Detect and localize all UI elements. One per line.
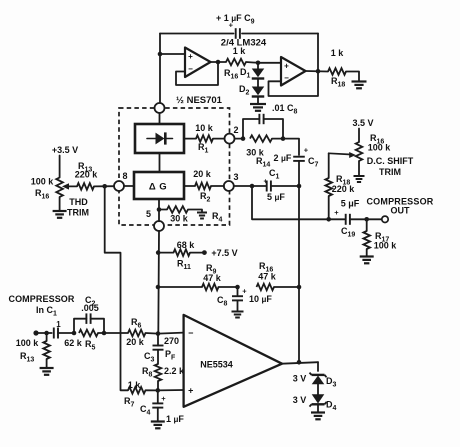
svg-text:3 V: 3 V [293,374,307,384]
resistor R13b 100k [16,333,50,368]
label D.C. SHIFT TRIM [367,156,414,177]
resistor R7 1k [124,380,158,409]
node THD junction [102,184,107,189]
svg-text:−: − [188,64,193,73]
capacitor C3 270pF [144,334,179,364]
svg-text:47 k: 47 k [258,272,277,282]
svg-text:−: − [188,328,193,338]
node noninverting input junction [156,388,184,393]
node inverting input junction [156,331,184,336]
svg-text:30 k: 30 k [170,214,189,224]
svg-text:1 μF: 1 μF [166,414,184,424]
ground after R18 [346,72,367,89]
resistor R8 2.2k [142,364,185,390]
dashed IC cell boundary [119,108,230,225]
svg-text:220 k: 220 k [332,184,356,194]
ground below D2 [250,97,266,111]
svg-text:D.C. SHIFT: D.C. SHIFT [367,156,414,166]
wire node-top to rectifier box [159,113,161,124]
wiper arrow R16d [62,183,77,189]
svg-text:62 k: 62 k [64,338,83,348]
svg-text:+: + [161,394,166,403]
ground pot R16d [53,211,67,218]
pin node 3 [224,172,239,191]
wire top feedback rail to C9 [160,34,318,72]
svg-text:100 k: 100 k [368,143,392,153]
svg-text:Δ G: Δ G [149,182,167,193]
svg-text:20 k: 20 k [193,169,212,179]
resistor R11 68k [174,240,207,271]
wire out line from node3 branch [252,186,345,219]
capacitor C8 10uF [217,287,272,312]
wire U1 feedback loop [176,62,218,85]
label +7.5V supply [211,248,237,258]
svg-text:+3.5 V: +3.5 V [52,145,78,155]
terminal compressor in [33,330,51,335]
svg-text:3.5 V: 3.5 V [352,118,373,128]
svg-text:1 k: 1 k [233,46,247,56]
svg-text:100 k: 100 k [374,241,398,251]
node junction op-amp U1 input [158,52,185,57]
svg-text:+: + [334,208,339,217]
resistor R16 1k [224,46,246,81]
svg-text:220 k: 220 k [75,170,99,180]
svg-text:THD: THD [69,197,88,207]
label 1/2 NES701 [176,95,223,106]
svg-text:TRIM: TRIM [379,167,401,177]
svg-text:47 k: 47 k [203,273,222,283]
op-amp U2 1/2 LM324 [281,57,306,86]
svg-text:+: + [304,146,309,155]
zener D4 3V [293,394,337,412]
capacitor C4 1uF [140,390,184,424]
svg-text:+: + [263,179,267,186]
node D1 junction [256,61,261,69]
capacitor C8a .01 parallel branch [243,114,283,139]
svg-text:+: + [284,62,289,71]
ground D4 [311,413,325,420]
capacitor C1in 1uF [54,320,74,339]
svg-text:270: 270 [164,336,179,346]
svg-text:+: + [188,52,193,61]
svg-text:5 μF: 5 μF [267,192,285,202]
resistor R4 30k [159,206,223,223]
node R9 junction [156,285,202,290]
pin node 5 [146,209,164,231]
svg-text:OUT: OUT [391,206,411,216]
wire node8 to delta-G [124,185,134,187]
zener D3 3V [293,373,337,395]
svg-text:NE5534: NE5534 [200,359,233,369]
svg-text:1: 1 [56,320,61,329]
resistor R5 62k [64,295,99,352]
svg-text:+7.5 V: +7.5 V [211,248,237,258]
wire to C7 [283,139,299,155]
potentiometer R16d 100k THD [31,156,63,211]
wire output feedback rail vertical [297,186,302,362]
wire R16 to U2 noninverting input [246,61,281,64]
potentiometer R16c 100k DC shift [356,129,392,176]
label C8 .01 [272,103,298,116]
svg-text:2: 2 [233,125,238,135]
node R13b junction [44,331,49,336]
capacitor C1 5uF [263,168,301,202]
label COMPRESSOR OUT [366,197,433,216]
label 2/4 LM324 [221,38,267,49]
svg-text:COMPRESSOR: COMPRESSOR [8,294,74,304]
terminal compressor out [382,216,388,222]
resistor R17 100k [363,219,397,256]
svg-text:½ NES701: ½ NES701 [176,95,223,106]
diode D1 [240,67,264,80]
wire rectifier to delta-G [159,153,161,172]
node C2 branch B [98,331,128,336]
op-amp U3 NE5534 [184,315,282,407]
diode D2 [239,84,264,97]
pin node 2 [225,125,239,144]
node C2 branch A [72,331,77,336]
svg-text:2 μF: 2 μF [274,153,292,163]
svg-text:TRIM: TRIM [67,208,89,218]
node C8 junction [235,285,240,295]
svg-text:−: − [284,74,289,83]
node R18b junction [326,217,331,222]
resistor R16b 47k [257,261,300,290]
wire THD junction down to R7 [105,186,128,390]
resistor R18 1k [328,48,346,89]
wire U2 output [306,69,329,74]
capacitor C19 5uF [334,199,366,239]
wire node2 to R14 [235,136,246,141]
svg-text:5 μF: 5 μF [341,199,360,209]
svg-text:20 k: 20 k [126,337,145,347]
capacitor C2 .005 parallel branch [74,313,104,333]
svg-text:68 k: 68 k [177,240,196,250]
label C9 value [216,13,255,26]
capacitor C9 1uF [229,21,240,39]
wire U3 output [282,360,318,371]
wire D1-D2 [257,79,259,87]
wire left rail from top corner down to NES701 cell [159,34,161,104]
node R11 junction [156,250,174,255]
svg-text:.005: .005 [81,303,99,313]
ground R17 [360,257,374,264]
svg-text:10 k: 10 k [195,123,214,133]
wire delta-G to node5 [157,199,162,221]
capacitor C7 2uF [274,146,319,187]
svg-text:8: 8 [122,171,127,181]
wire node3 to C1 [234,184,266,189]
svg-text:2.2 k: 2.2 k [164,366,185,376]
wire node5 down to inverting input rail [157,231,160,334]
rectifier cell box [135,124,184,153]
pin node top (rectifier in) [155,103,165,113]
ground R13b [40,368,54,375]
ground R4 [197,213,207,219]
pin node 8 [114,171,128,191]
svg-text:1 k: 1 k [128,380,142,390]
ground C8 [232,312,244,318]
node R17 junction [364,217,381,222]
svg-text:3: 3 [233,172,238,182]
label 3.5V supply [352,118,373,128]
label THD TRIM [67,197,89,218]
wire U1 output [211,60,227,65]
ground pot R16c [354,176,365,182]
svg-text:5: 5 [146,209,151,219]
delta-G gain cell box [134,172,184,199]
resistor R6 20k [126,317,158,347]
svg-text:100 k: 100 k [16,338,40,348]
resistor R13 220k [75,161,114,190]
rectifier diode symbol [147,132,173,144]
op-amp U1 1/2 NES701 buffer [185,48,211,78]
label COMPRESSOR In [8,294,74,318]
ground C4 [151,422,165,429]
svg-text:10 μF: 10 μF [249,294,272,304]
resistor R1 10k [184,123,225,155]
svg-text:+: + [188,385,193,395]
resistor R9 47k [202,263,238,290]
svg-text:+: + [242,287,247,296]
label +3.5V supply [52,145,78,155]
wire U2 feedback loop [269,71,319,96]
resistor R2 20k [184,169,224,204]
svg-text:1 k: 1 k [331,48,345,58]
resistor R18b 220k [325,153,355,219]
svg-text:3 V: 3 V [293,395,307,405]
wiper arrow R16c [329,152,356,158]
resistor R14 30k [246,135,285,168]
svg-text:100 k: 100 k [31,177,55,187]
